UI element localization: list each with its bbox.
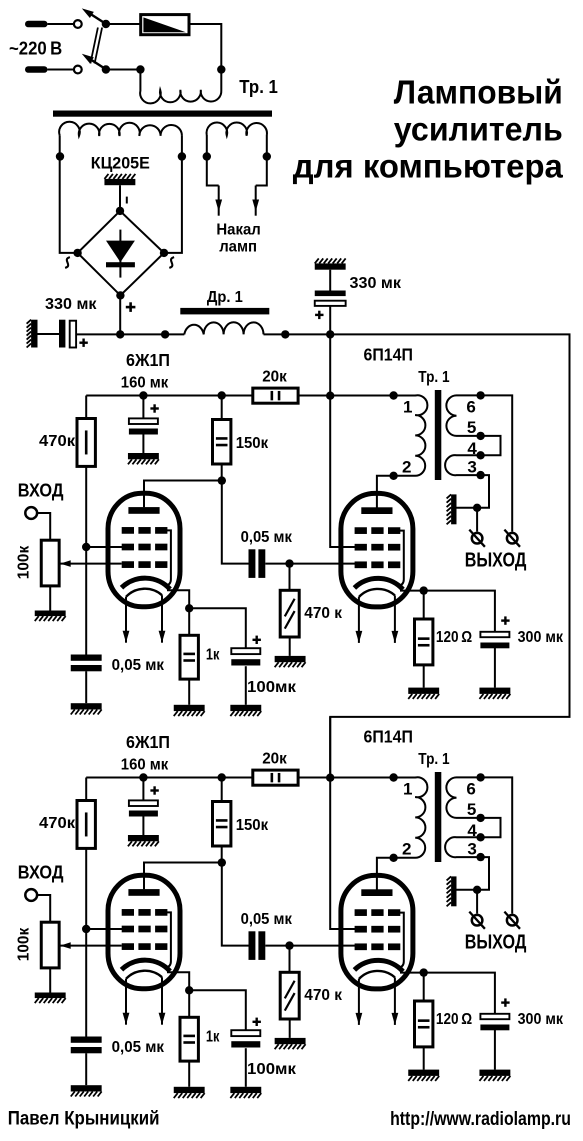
AC plug prong (bottom) <box>25 66 73 73</box>
ground (C3) (channel 1) <box>128 453 159 464</box>
ground (pot) (channel 2) <box>35 993 66 1004</box>
ground (R6) (channel 2) <box>174 1087 205 1098</box>
svg-text:Накал: Накал <box>216 222 260 239</box>
tube V1 6Zh1P (channel 2) <box>108 875 180 1024</box>
wire cathode to R7 (channel 1) <box>423 591 425 619</box>
svg-text:ВЫХОД: ВЫХОД <box>465 550 527 572</box>
svg-text:100мк: 100мк <box>247 679 297 696</box>
junction dot (OT primary pin2) (channel 1) <box>389 472 397 480</box>
transformer T1 filament winding <box>207 122 267 135</box>
svg-text:1: 1 <box>403 397 412 416</box>
svg-text:150к: 150к <box>236 817 269 834</box>
label 6P14P tube (channel 2) <box>364 727 413 747</box>
bridge diode symbol <box>106 230 135 278</box>
svg-text:160 мк: 160 мк <box>121 375 169 392</box>
junction dot (OT primary pin1) (channel 1) <box>389 391 397 399</box>
label 0.05 uF (coupling) (channel 1) <box>241 529 293 546</box>
wire grid node to R4 (channel 2) <box>289 946 291 973</box>
svg-text:470к: 470к <box>39 433 76 450</box>
label VHOD (input) (channel 2) <box>18 862 64 883</box>
ground (C7) (channel 2) <box>479 1070 510 1081</box>
junction dot (primary right) <box>217 65 225 73</box>
svg-text:3: 3 <box>467 840 476 859</box>
label 0.05 uF (screen) (channel 1) <box>112 657 165 674</box>
label 470k (channel 2) <box>39 815 76 832</box>
C7 plus mark (channel 1) <box>501 616 509 624</box>
resistor R3 20k (channel 2) <box>253 770 298 785</box>
junction dot (V2 cathode) (channel 1) <box>420 586 428 594</box>
svg-text:20к: 20к <box>262 368 288 385</box>
junction dot pin3 (channel 2) <box>476 853 484 861</box>
svg-text:Ламповый: Ламповый <box>394 74 563 111</box>
svg-text:20к: 20к <box>262 750 288 767</box>
wire C4 to grid node (channel 2) <box>265 945 289 947</box>
wire cathode to C6 (channel 2) <box>189 990 246 1030</box>
resistor R6 1k (channel 1) <box>180 635 198 679</box>
wire rail to R2 150k (channel 1) <box>221 396 223 420</box>
wire grid node to V2 grid (channel 2) <box>290 945 357 947</box>
svg-text:Павел Крыницкий: Павел Крыницкий <box>8 1108 160 1130</box>
pot wiper arrow (channel 2) <box>60 942 121 949</box>
wire C5 to ground (channel 1) <box>85 671 87 703</box>
chassis ground (output) (channel 1) <box>447 494 457 524</box>
ground (bridge top, chassis) <box>104 174 135 185</box>
label ~220 V <box>9 38 62 58</box>
label 160 uF (channel 1) <box>121 375 169 392</box>
svg-text:1: 1 <box>403 779 412 798</box>
svg-text:ВЫХОД: ВЫХОД <box>465 932 527 954</box>
wire anode node to C4 (channel 2) <box>222 863 249 946</box>
junction dot (anode node) (channel 1) <box>218 476 226 484</box>
bridge corner dot (top) <box>116 207 124 215</box>
switch S1 contact circle (top) <box>74 20 82 28</box>
label 100k (channel 2) <box>16 927 33 961</box>
svg-text:100мк: 100мк <box>247 1061 297 1078</box>
potentiometer R5 100k (channel 2) <box>41 922 59 968</box>
svg-text:6Ж1П: 6Ж1П <box>126 732 170 752</box>
label pin 5 (channel 1) <box>467 418 476 437</box>
junction dot (HV secondary left) <box>56 152 64 160</box>
wire cathode to C7 (channel 2) <box>424 973 495 1014</box>
label pin 1 (channel 1) <box>403 397 412 416</box>
wire rail to R1 470k (channel 1) <box>85 396 87 419</box>
junction dot (switch bottom) <box>102 65 110 73</box>
resistor R1 470k (channel 1) <box>77 419 95 467</box>
output terminal (right) (channel 1) <box>504 530 520 547</box>
switch S1 blade (top) <box>82 8 106 24</box>
label 160 uF (channel 2) <box>121 757 169 774</box>
junction dot pin5 (channel 2) <box>476 814 484 822</box>
junction dot (V1 screen) (channel 1) <box>82 543 90 551</box>
svg-text:300 мк: 300 мк <box>518 629 564 646</box>
jumper pin5 to pin4 (channel 2) <box>481 818 501 837</box>
label pin 6 (channel 1) <box>466 397 475 416</box>
svg-text:0,05 мк: 0,05 мк <box>241 529 293 546</box>
label Tr. 1 (output transformer) (channel 1) <box>418 369 449 386</box>
OT secondary winding 6-5 (channel 1) <box>446 395 480 436</box>
label 470 k (channel 1) <box>304 605 343 622</box>
label pin 3 (channel 2) <box>467 840 476 859</box>
svg-text:0,05 мк: 0,05 мк <box>112 657 165 674</box>
ground (C6) (channel 1) <box>230 705 261 716</box>
switch S1 mechanical link <box>90 28 102 64</box>
label 20k (channel 1) <box>262 368 288 385</box>
label VHOD (input) (channel 1) <box>18 480 64 501</box>
bridge rectifier VD1 diamond <box>78 211 164 296</box>
tube V2 6P14P (channel 2) <box>341 875 413 1025</box>
credit text <box>8 1108 160 1130</box>
output terminal (right) (channel 2) <box>504 912 520 929</box>
bridge AC mark (left) <box>65 257 70 268</box>
junction dot (C3 160uF) (channel 2) <box>139 773 147 781</box>
wire pin6 to output (channel 2) <box>481 777 513 913</box>
wire bus to choke <box>120 333 184 335</box>
cathode wire V2 (channel 2) <box>400 972 424 974</box>
wire B+ drop to screen (channel 2) <box>330 717 356 929</box>
label 0.05 uF (screen) (channel 2) <box>112 1039 165 1056</box>
title line <box>293 74 564 185</box>
label 120 Ohm (channel 2) <box>436 1011 472 1028</box>
wire R3 to B+ drop (channel 2) <box>298 777 330 779</box>
wire rail to C3 (channel 2) <box>142 778 144 801</box>
resistor R1 470k (channel 2) <box>77 801 95 849</box>
svg-text:4: 4 <box>467 439 477 458</box>
svg-text:http://www.radiolamp.ru: http://www.radiolamp.ru <box>390 1108 571 1130</box>
chassis ground (output) (channel 2) <box>447 876 457 906</box>
cathode wire V1 (channel 1) <box>167 590 189 635</box>
label 330 uF (right) <box>350 275 402 292</box>
site text <box>390 1108 571 1130</box>
OT secondary winding 6-5 (channel 2) <box>446 777 480 818</box>
svg-text:усилитель: усилитель <box>394 111 563 148</box>
ground (C6) (channel 2) <box>230 1087 261 1098</box>
wire R2 to anode node (channel 1) <box>221 464 223 481</box>
junction dot (filament right) <box>263 152 271 160</box>
AC plug prong (top) <box>25 21 73 28</box>
tube V2 6P14P (channel 1) <box>341 493 413 643</box>
label pin 1 (channel 2) <box>403 779 412 798</box>
svg-text:ВХОД: ВХОД <box>18 862 64 883</box>
label 470 k (channel 2) <box>304 987 343 1004</box>
label 1k (channel 2) <box>206 1029 220 1046</box>
ground (C2, above) <box>315 258 346 269</box>
anode wire V1 (channel 1) <box>144 481 222 508</box>
svg-text:5: 5 <box>467 418 476 437</box>
wire input to potentiometer (channel 2) <box>37 895 50 922</box>
svg-text:1к: 1к <box>206 647 220 664</box>
capacitor C6 100uF (channel 1) <box>231 648 260 665</box>
ground (R4) (channel 2) <box>275 1038 306 1049</box>
label 100 uF (channel 2) <box>247 1061 297 1078</box>
wire bridge bottom to B+ bus <box>119 295 121 334</box>
pot wiper arrow (channel 1) <box>60 560 121 567</box>
junction dot (rail/R2) (channel 2) <box>218 773 226 781</box>
wire pot to ground (channel 2) <box>49 968 51 993</box>
resistor R2 150k (channel 1) <box>213 420 231 465</box>
C7 plus mark (channel 2) <box>501 998 509 1006</box>
capacitor C4 0.05uF (coupling) (channel 1) <box>249 549 266 578</box>
output terminal (left) (channel 2) <box>469 912 485 929</box>
junction dot (V2 cathode) (channel 2) <box>420 968 428 976</box>
wire pin3 to output node (channel 1) <box>477 475 489 508</box>
label Nakal lamp <box>216 222 260 256</box>
junction dot (rail/R2) (channel 1) <box>218 391 226 399</box>
svg-text:0,05 мк: 0,05 мк <box>112 1039 165 1056</box>
filament lead right <box>252 135 266 216</box>
svg-text:6: 6 <box>466 779 475 798</box>
junction dot (filament left) <box>203 152 211 160</box>
wire R3 to B+ drop (channel 1) <box>298 395 330 397</box>
potentiometer R5 100k (channel 1) <box>41 540 59 586</box>
wire R7 to ground (channel 2) <box>423 1047 425 1070</box>
label 100 uF (channel 1) <box>247 679 297 696</box>
wire R6 to ground (channel 1) <box>188 679 190 705</box>
C3 plus mark (channel 1) <box>150 404 158 412</box>
wire R4 to ground (channel 2) <box>289 1019 291 1038</box>
input terminal (channel 2) <box>25 889 37 901</box>
junction dot pin3 (channel 1) <box>476 471 484 479</box>
wire HV secondary left to bridge <box>60 135 78 253</box>
svg-text:470 к: 470 к <box>304 605 343 622</box>
capacitor C2 330uF (right) <box>315 291 346 306</box>
junction dot (C3 160uF) (channel 1) <box>139 391 147 399</box>
junction dot pin5 (channel 1) <box>476 432 484 440</box>
label 470k (channel 1) <box>39 433 76 450</box>
junction dot (V1 screen) (channel 2) <box>82 925 90 933</box>
wire R3 junction to transformer (channel 2) <box>330 777 393 779</box>
svg-text:100к: 100к <box>16 927 33 961</box>
svg-text:470 к: 470 к <box>304 987 343 1004</box>
transformer T1 HV secondary winding <box>59 122 182 136</box>
svg-text:1к: 1к <box>206 1029 220 1046</box>
wire rail to C3 (channel 1) <box>142 396 144 419</box>
OT primary winding (channel 2) <box>394 777 428 858</box>
label pin 2 (channel 1) <box>402 458 411 477</box>
resistor R7 120 Ohm (channel 2) <box>415 1001 433 1047</box>
bridge corner dot (right) <box>160 249 168 257</box>
anode wire V1 (channel 2) <box>144 863 222 890</box>
wire C6 to ground (channel 1) <box>245 666 247 705</box>
anode wire V2 (channel 1) <box>377 476 394 508</box>
OT core (channel 2) <box>435 772 442 862</box>
C1 plus mark <box>79 339 87 347</box>
label 120 Ohm (channel 1) <box>436 629 472 646</box>
transformer T1 core <box>53 111 272 117</box>
capacitor C7 300uF (channel 2) <box>480 1014 509 1031</box>
svg-text:330 мк: 330 мк <box>350 275 402 292</box>
wire switch to primary <box>106 69 140 71</box>
bridge corner dot (bottom) <box>116 291 124 299</box>
wire 470k to screen/C5 (channel 2) <box>85 848 87 1036</box>
capacitor C3 160uF (channel 2) <box>129 800 158 816</box>
wire C4 to grid node (channel 1) <box>265 563 289 565</box>
junction dot (primary left) <box>136 65 144 73</box>
C3 plus mark (channel 2) <box>150 786 158 794</box>
wire grid node to V2 grid (channel 1) <box>290 563 357 565</box>
wire B+ drop to screen (channel 1) <box>330 334 356 547</box>
junction dot (OT primary pin1) (channel 2) <box>389 773 397 781</box>
capacitor C5 0.05uF (screen) (channel 1) <box>71 655 102 672</box>
resistor R4 470k (grid) (channel 2) <box>280 972 299 1019</box>
wire C7 to ground (channel 2) <box>494 1030 496 1070</box>
svg-text:ламп: ламп <box>219 239 257 256</box>
capacitor C4 0.05uF (coupling) (channel 2) <box>249 931 266 960</box>
wire pin3 to output node (channel 2) <box>477 857 489 890</box>
ground (C5) (channel 2) <box>71 1085 102 1096</box>
svg-text:470к: 470к <box>39 815 76 832</box>
wire rail to R2 150k (channel 2) <box>221 778 223 802</box>
svg-text:Др. 1: Др. 1 <box>207 289 243 306</box>
label 300 uF (channel 2) <box>518 1011 564 1028</box>
junction dot (V1 cathode) (channel 1) <box>185 604 193 612</box>
label 1k (channel 1) <box>206 647 220 664</box>
wire pot to ground (channel 1) <box>49 586 51 611</box>
svg-text:100к: 100к <box>16 545 33 579</box>
svg-text:120 Ω: 120 Ω <box>436 1011 472 1028</box>
wire anode node to C4 (channel 1) <box>222 481 249 564</box>
svg-text:330 мк: 330 мк <box>45 296 98 313</box>
ground (R6) (channel 1) <box>174 705 205 716</box>
junction dot (HV secondary right) <box>178 152 186 160</box>
svg-text:150к: 150к <box>236 435 269 452</box>
choke Dr1 core bar <box>180 308 269 315</box>
cathode wire V1 (channel 2) <box>167 972 189 1017</box>
wire cathode to C7 (channel 1) <box>424 591 495 632</box>
label Dr. 1 (choke) <box>207 289 243 306</box>
ground (C3) (channel 2) <box>128 835 159 846</box>
label VYHOD (output) (channel 1) <box>465 550 527 572</box>
anode wire V2 (channel 2) <box>377 858 394 890</box>
wire output node to terminal (channel 1) <box>476 508 478 532</box>
ground (R7) (channel 1) <box>408 688 439 699</box>
wire C6 to ground (channel 2) <box>245 1048 247 1087</box>
svg-text:6: 6 <box>466 397 475 416</box>
svg-text:6П14П: 6П14П <box>364 345 413 365</box>
label 300 uF (channel 1) <box>518 629 564 646</box>
input terminal (channel 1) <box>25 507 37 519</box>
wire grid node to R4 (channel 1) <box>289 564 291 591</box>
label VYHOD (output) (channel 2) <box>465 932 527 954</box>
resistor R4 470k (grid) (channel 1) <box>280 590 299 637</box>
wire C3 to ground (channel 2) <box>142 816 144 835</box>
cathode wire V2 (channel 1) <box>400 590 424 592</box>
fuse FU1 <box>141 15 189 35</box>
wire ground to bridge top <box>119 185 121 211</box>
junction dot (V2 grid node) (channel 2) <box>285 941 293 949</box>
label 330 uF (left) <box>45 296 98 313</box>
capacitor C5 0.05uF (screen) (channel 2) <box>71 1037 102 1054</box>
junction dot (output ground node) (channel 2) <box>473 886 481 894</box>
B+ bus wire to right edge <box>330 334 569 777</box>
label pin 6 (channel 2) <box>466 779 475 798</box>
wire switch to fuse <box>106 23 141 25</box>
switch S1 contact circle (bottom) <box>74 66 82 74</box>
wire cathode to R7 (channel 2) <box>423 973 425 1001</box>
wire C3 to ground (channel 1) <box>142 434 144 453</box>
switch S1 blade (bottom) <box>82 54 106 70</box>
output terminal (left) (channel 1) <box>469 530 485 547</box>
wire R3 junction to transformer (channel 1) <box>330 395 393 397</box>
wire screen lead V1 (channel 2) <box>86 928 123 930</box>
resistor R7 120 Ohm (channel 1) <box>415 619 433 665</box>
svg-text:300 мк: 300 мк <box>518 1011 564 1028</box>
tube V1 6Zh1P (channel 1) <box>108 493 180 643</box>
ground (pot) (channel 1) <box>35 611 66 622</box>
wire C5 to ground (channel 2) <box>85 1053 87 1085</box>
wire chassis to C1 <box>38 333 60 335</box>
chassis ground (left) <box>27 320 38 348</box>
wire C1 to bus junction <box>76 333 120 335</box>
svg-text:6П14П: 6П14П <box>364 727 413 747</box>
junction dot (OT primary pin2) (channel 2) <box>389 854 397 862</box>
label 0.05 uF (coupling) (channel 2) <box>241 911 293 928</box>
supply rail wire (channel 2) <box>86 777 253 779</box>
label 6P14P tube (channel 1) <box>364 345 413 365</box>
label pin 3 (channel 1) <box>467 458 476 477</box>
wire C7 to ground (channel 1) <box>494 648 496 688</box>
label KTs205E (bridge rectifier) <box>91 154 150 172</box>
wire output node to terminal (channel 2) <box>476 890 478 914</box>
capacitor C3 160uF (channel 1) <box>129 418 158 434</box>
junction dot pin4 (channel 1) <box>476 451 484 459</box>
wire rail to R1 470k (channel 2) <box>85 778 87 801</box>
transformer T1 primary winding <box>140 70 221 104</box>
wire pin6 to output (channel 1) <box>481 395 513 531</box>
wire R2 to anode node (channel 2) <box>221 846 223 863</box>
label pin 4 (channel 2) <box>467 821 477 840</box>
label 150k (channel 2) <box>236 817 269 834</box>
svg-text:6Ж1П: 6Ж1П <box>126 350 170 370</box>
C2 plus mark <box>315 311 323 319</box>
label Tr. 1 (output transformer) (channel 2) <box>418 751 449 768</box>
junction dot (B+ bus / C2) <box>326 330 334 338</box>
svg-text:2: 2 <box>402 840 411 859</box>
svg-text:4: 4 <box>467 821 477 840</box>
capacitor C7 300uF (channel 1) <box>480 632 509 649</box>
svg-text:3: 3 <box>467 458 476 477</box>
junction dot (V1 cathode) (channel 2) <box>185 986 193 994</box>
svg-text:для компьютера: для компьютера <box>293 148 564 185</box>
junction dot pin6 (channel 1) <box>476 391 484 399</box>
label 150k (channel 1) <box>236 435 269 452</box>
label 6Zh1P tube (channel 1) <box>126 350 170 370</box>
svg-text:160 мк: 160 мк <box>121 757 169 774</box>
ground (C7) (channel 1) <box>479 688 510 699</box>
choke Dr1 winding <box>184 322 263 334</box>
svg-text:Тр. 1: Тр. 1 <box>418 751 449 768</box>
svg-text:0,05 мк: 0,05 мк <box>241 911 293 928</box>
wire screen lead V1 (channel 1) <box>86 546 123 548</box>
label 100k (channel 1) <box>16 545 33 579</box>
bridge minus mark <box>126 197 128 204</box>
wire input to potentiometer (channel 1) <box>37 513 50 540</box>
C6 plus mark (channel 2) <box>253 1018 261 1026</box>
capacitor C6 100uF (channel 2) <box>231 1030 260 1047</box>
OT secondary winding 4-3 (channel 1) <box>445 455 481 475</box>
OT core (channel 1) <box>435 390 442 480</box>
junction dot pin4 (channel 2) <box>476 833 484 841</box>
svg-text:~220 В: ~220 В <box>9 38 62 58</box>
wire HV secondary right to bridge <box>164 135 182 253</box>
bridge corner dot (left) <box>73 249 81 257</box>
wire C2 to B+ bus <box>329 306 331 335</box>
jumper pin5 to pin4 (channel 1) <box>481 436 501 455</box>
wire 470k to screen/C5 (channel 1) <box>85 466 87 654</box>
wire chassis to output node (channel 2) <box>457 889 478 891</box>
label Tr. 1 (power transformer) <box>239 77 278 97</box>
svg-text:ВХОД: ВХОД <box>18 480 64 501</box>
wire chassis to output node (channel 1) <box>457 507 478 509</box>
